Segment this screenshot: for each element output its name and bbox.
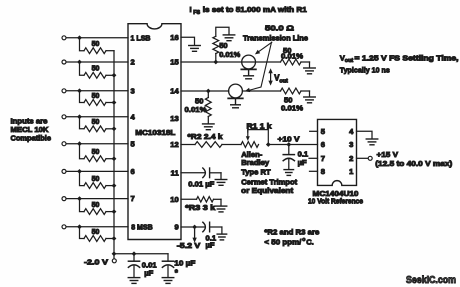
ground ref bypass [284, 170, 294, 176]
svg-text:0.01 µF: 0.01 µF [188, 180, 214, 189]
svg-text:FS: FS [193, 10, 200, 16]
svg-text:= 1.25 V FS Settling Time,: = 1.25 V FS Settling Time, [355, 53, 459, 62]
svg-text:14: 14 [170, 87, 179, 96]
svg-text:4: 4 [349, 127, 354, 136]
svg-text:50: 50 [92, 149, 100, 156]
svg-text:µF: µF [144, 268, 153, 277]
svg-text:4: 4 [131, 112, 136, 121]
wire U1 pin16 [181, 37, 195, 45]
ground bypass 0.01uF [128, 278, 140, 284]
node input 6 junction [77, 169, 82, 174]
resistor 50 0.01% pin14 pull-down [185, 91, 212, 124]
capacitor 0.1 uF pin9 [203, 222, 222, 249]
svg-text:11: 11 [171, 168, 180, 177]
wire U2 pin5 stub [310, 130, 318, 132]
svg-text:< 50 ppm/: < 50 ppm/ [264, 238, 302, 247]
svg-text:-2.0 V: -2.0 V [84, 257, 109, 266]
wire input 5 down to R [80, 144, 85, 159]
wire input 4 down to R [80, 117, 85, 129]
resistor R3 3k [185, 197, 221, 212]
label +10 V [278, 134, 301, 143]
svg-text:50.0 Ω: 50.0 Ω [265, 23, 294, 32]
label -2.0 V [84, 257, 109, 266]
resistor 50 ohm input 7 [84, 202, 114, 215]
ground pin15 resistor [223, 35, 235, 41]
ground pin9 cap [217, 234, 227, 240]
svg-text:Cermet Trimpot: Cermet Trimpot [241, 177, 297, 186]
wire U1 pin15 [181, 61, 242, 63]
node -5.2V supply arrow [177, 230, 202, 251]
svg-text:Transmission Line: Transmission Line [243, 33, 308, 42]
svg-text:13: 13 [170, 114, 178, 123]
node bus junction 6 [112, 183, 117, 188]
node Vout arrow [268, 68, 288, 85]
svg-text:50: 50 [92, 176, 100, 183]
wire input 4 to U1 pin 4 [66, 116, 128, 118]
input terminal bit 8 [62, 225, 66, 229]
input terminal bit 5 [62, 142, 66, 146]
node input 3 junction [77, 88, 82, 93]
op-amp U1 MC10318L DAC [128, 24, 181, 240]
svg-text:I: I [190, 5, 192, 14]
input terminal bit 3 [62, 89, 66, 93]
svg-text:1 LSB: 1 LSB [131, 33, 151, 42]
wire U1 pin9 [181, 226, 205, 228]
svg-text:10 µF: 10 µF [174, 259, 195, 268]
svg-text:6: 6 [131, 167, 135, 176]
svg-text:0.01%: 0.01% [281, 103, 303, 112]
svg-text:µF: µF [206, 240, 215, 249]
wire U1 pin11 [181, 172, 205, 174]
node bus to caps junction [112, 251, 117, 256]
input terminal bit 1 [62, 36, 66, 40]
wire U1 pin10 [181, 198, 197, 200]
wire input 8 down to R [80, 227, 85, 239]
svg-text:*R2 2.4 k: *R2 2.4 k [188, 132, 224, 141]
svg-text:9: 9 [174, 223, 178, 232]
svg-text:2: 2 [131, 58, 135, 67]
resistor 50 0.01% pin15 pull-up [213, 27, 241, 62]
svg-text:2: 2 [349, 154, 353, 163]
capacitor 0.01 uF pin11 [188, 168, 221, 189]
node bus junction 5 [112, 156, 117, 161]
trimpot R1 1k [241, 121, 272, 147]
wire bottom bypass rail [114, 253, 168, 255]
svg-text:50: 50 [92, 66, 100, 73]
terminal -2.0 V [112, 259, 116, 263]
node 0.01uF junction [132, 251, 137, 256]
label Vout note [340, 53, 459, 74]
svg-text:10: 10 [170, 195, 178, 204]
svg-text:or Equivalent: or Equivalent [241, 186, 294, 195]
svg-text:+10 V: +10 V [278, 134, 301, 143]
svg-text:Compatible: Compatible [11, 134, 52, 143]
wire input 3 down to R [80, 91, 85, 103]
svg-text:Inputs are: Inputs are [11, 117, 48, 126]
svg-text:is set to 51.000 mA with R1: is set to 51.000 mA with R1 [203, 5, 308, 14]
ground bypass 10uF [162, 278, 174, 284]
transmission line probe 2 [228, 84, 280, 98]
arrow to probe 2 [245, 42, 272, 92]
node input 1 junction [77, 35, 82, 40]
ground output bottom resistor [304, 97, 316, 103]
node input 2 junction [77, 60, 82, 65]
node bus junction 8 [112, 236, 117, 241]
capacitor 10 uF bypass [162, 254, 195, 278]
label R2 R3 tempco note [264, 228, 319, 247]
svg-text:5: 5 [321, 127, 326, 136]
node bus junction 4 [112, 126, 117, 131]
svg-text:Type RT: Type RT [241, 168, 271, 177]
ground R3 [215, 206, 227, 212]
svg-text:50: 50 [92, 41, 100, 48]
wire input 6 down to R [80, 171, 85, 185]
transmission line probe 1 [241, 55, 280, 69]
label SeekIC watermark [406, 275, 456, 286]
resistor 50 ohm input 1 [84, 41, 114, 54]
wire U2 pin8 stub [310, 170, 318, 172]
svg-text:-5.2 V: -5.2 V [177, 241, 202, 250]
svg-text:50: 50 [92, 229, 100, 236]
svg-text:+15 V: +15 V [377, 150, 399, 159]
svg-text:8: 8 [321, 167, 325, 176]
svg-text:C.: C. [306, 238, 314, 247]
ground pin14 resistor [203, 124, 215, 130]
wire input 2 to U1 pin 2 [66, 61, 128, 63]
wire U1 pin14 [181, 90, 229, 92]
svg-text:(12.5 to 40.0 V max): (12.5 to 40.0 V max) [375, 159, 453, 168]
label MC1404U10 [308, 189, 363, 205]
input terminal bit 7 [62, 197, 66, 201]
node R1 output junction [266, 142, 271, 147]
node pin15 junction [213, 60, 218, 65]
resistor 50 ohm input 6 [84, 176, 114, 189]
node input 8 junction [77, 224, 82, 229]
wire input 8 to U1 pin 8 [66, 226, 128, 228]
ground pin16 [189, 46, 201, 52]
wire -2V bus [113, 51, 115, 259]
svg-text:16: 16 [170, 33, 178, 42]
node input 4 junction [77, 114, 82, 119]
svg-text:7: 7 [131, 194, 135, 203]
node bus junction 7 [112, 209, 117, 214]
wire input 7 to U1 pin 7 [66, 198, 128, 200]
capacitor 0.1 uF ref bypass [283, 145, 309, 170]
wire U1 pin12 to R2 [181, 144, 195, 146]
node pin14 junction [206, 89, 211, 94]
input terminal bit 6 [62, 169, 66, 173]
resistor 50 ohm input 3 [84, 93, 114, 106]
label 50 ohm transmission line [243, 23, 308, 42]
svg-text:0.01%: 0.01% [281, 52, 303, 61]
node pin9 junction [192, 225, 197, 230]
wire +10V node [268, 144, 317, 146]
svg-text:*R3 3 k: *R3 3 k [185, 203, 216, 212]
wire U2 pin4 to ground [357, 131, 373, 138]
svg-text:out: out [345, 58, 354, 64]
arrow to probe 1 [255, 42, 272, 54]
svg-text:Typically 10 ns: Typically 10 ns [340, 66, 390, 75]
wire input 1 to U1 pin 1 [66, 37, 128, 39]
input terminal bit 2 [62, 60, 66, 64]
svg-text:50: 50 [92, 202, 100, 209]
svg-text:*: * [175, 268, 179, 277]
svg-text:SeekIC.com: SeekIC.com [406, 275, 456, 286]
svg-text:3: 3 [131, 86, 135, 95]
svg-text:1: 1 [349, 167, 354, 176]
svg-text:0.01%: 0.01% [185, 105, 207, 114]
node input 7 junction [77, 196, 82, 201]
resistor 50 0.01% output bottom [281, 88, 310, 112]
svg-text:3: 3 [349, 140, 353, 149]
svg-text:Bradley: Bradley [241, 158, 270, 167]
resistor R2 2.4k [188, 132, 224, 147]
resistor 50 ohm input 5 [84, 149, 114, 162]
resistor 50 ohm input 8 [84, 229, 114, 242]
svg-text:8 MSB: 8 MSB [131, 222, 153, 231]
svg-text:5: 5 [131, 139, 136, 148]
ground probe 1 [244, 69, 254, 78]
ground pin11 cap [215, 180, 227, 186]
resistor 50 0.01% output top [281, 46, 310, 68]
wire U2 pin7 stub [309, 157, 318, 159]
node +10V junction [286, 142, 291, 147]
svg-text:o: o [302, 237, 305, 243]
svg-text:R1 1 k: R1 1 k [247, 121, 273, 130]
node input 5 junction [77, 141, 82, 146]
node bus junction 3 [112, 100, 117, 105]
input terminal bit 4 [62, 115, 66, 119]
wire input 1 down to R [80, 38, 85, 51]
svg-text:µF: µF [298, 158, 307, 167]
node bus junction 2 [112, 73, 117, 78]
svg-text:50: 50 [92, 119, 100, 126]
label IFS note [190, 5, 308, 16]
svg-text:6: 6 [321, 140, 325, 149]
wire R2 to R1 [222, 144, 241, 146]
terminal +15V [368, 156, 372, 160]
svg-text:50: 50 [92, 93, 100, 100]
svg-text:12: 12 [170, 140, 178, 149]
wire input 7 down to R [80, 199, 85, 212]
wire U2 pin2 [357, 157, 369, 159]
wire input 2 down to R [80, 62, 85, 75]
svg-text:0.1: 0.1 [298, 149, 309, 158]
label inputs MECL [11, 117, 52, 143]
label Allen-Bradley [241, 150, 297, 195]
wire input 6 to U1 pin 6 [66, 170, 128, 172]
op-amp U2 MC1404U10 reference [318, 119, 357, 185]
resistor 50 ohm input 2 [84, 66, 114, 79]
svg-text:0.01%: 0.01% [219, 50, 240, 59]
wire input 3 to U1 pin 3 [66, 90, 128, 92]
wire input 5 to U1 pin 5 [66, 143, 128, 145]
capacitor 0.01 uF bypass [128, 254, 157, 278]
svg-text:MC10318L: MC10318L [135, 128, 175, 137]
resistor 50 ohm input 4 [84, 119, 114, 132]
svg-text:7: 7 [321, 154, 325, 163]
svg-text:out: out [279, 78, 288, 84]
ground probe 2 [231, 98, 241, 107]
svg-text:10 Volt Reference: 10 Volt Reference [308, 197, 363, 206]
ground output top resistor [304, 68, 316, 74]
svg-text:*R2 and R3 are: *R2 and R3 are [264, 228, 319, 237]
ground U2 pin4 [366, 139, 378, 145]
svg-text:15: 15 [170, 58, 179, 67]
label +15V [375, 150, 453, 168]
